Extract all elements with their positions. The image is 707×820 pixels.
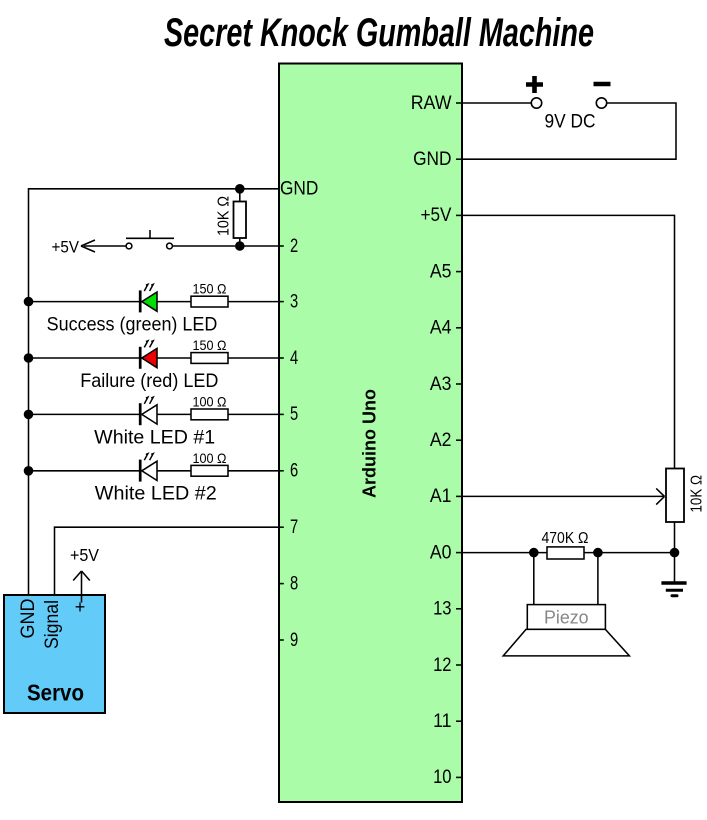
resistor R4 100 ohm	[191, 409, 279, 420]
svg-text:GND: GND	[17, 599, 39, 639]
node junction dot at potentiometer bottom	[670, 548, 680, 558]
pin GND right label	[413, 149, 462, 170]
wire pin2 row	[240, 245, 279, 247]
pin A2 label	[430, 430, 462, 451]
pin 9 label	[279, 630, 298, 651]
node junction dot bus row4	[24, 353, 34, 363]
svg-text:A0: A0	[430, 542, 452, 563]
svg-text:12: 12	[433, 655, 451, 676]
svg-text:9V DC: 9V DC	[545, 110, 596, 132]
battery minus sign	[594, 82, 611, 87]
svg-text:100 Ω: 100 Ω	[193, 450, 227, 466]
wire battery minus to GND	[462, 103, 676, 159]
wire pushbutton to +5V arrow	[84, 245, 126, 247]
svg-text:11: 11	[433, 711, 451, 732]
wire GND left bus	[29, 189, 280, 601]
svg-text:Arduino Uno: Arduino Uno	[359, 389, 380, 498]
svg-text:470K Ω: 470K Ω	[542, 530, 589, 547]
piezo cone	[503, 629, 629, 656]
svg-text:4: 4	[290, 348, 299, 369]
svg-text:10K Ω: 10K Ω	[689, 475, 706, 513]
wire pin7 to servo signal	[55, 527, 280, 600]
+5V arrow head	[81, 240, 95, 252]
battery terminal minus circle	[596, 98, 606, 108]
node junction dot on GND line	[235, 184, 245, 194]
A1 wiper arrow head	[656, 488, 664, 504]
svg-text:A5: A5	[430, 261, 452, 282]
svg-text:Failure (red) LED: Failure (red) LED	[80, 370, 218, 392]
Arduino Uno board U1	[279, 64, 462, 803]
svg-text:150 Ω: 150 Ω	[193, 281, 227, 297]
resistor R5 100 ohm	[191, 465, 279, 476]
wire A0 row right of resistor	[584, 552, 675, 554]
pin 5 label	[279, 404, 298, 425]
svg-text:GND: GND	[280, 179, 318, 200]
svg-text:A2: A2	[430, 430, 452, 451]
resistor R2 150 ohm	[191, 296, 279, 307]
node junction dot bus row6	[24, 466, 34, 476]
node junction dot bus row3	[24, 297, 34, 307]
svg-text:+5V: +5V	[70, 545, 99, 565]
pin 10 label	[433, 767, 462, 788]
wire piezo right lead	[597, 553, 599, 605]
pin RAW label	[411, 93, 462, 114]
pin 13 label	[433, 599, 462, 620]
svg-text:6: 6	[290, 461, 298, 482]
resistor R7 470K	[547, 547, 584, 559]
pin A3 label	[430, 374, 462, 395]
pin 3 label	[279, 291, 298, 312]
svg-text:9: 9	[290, 630, 298, 651]
pin A5 label	[430, 261, 462, 282]
svg-text:+5V: +5V	[52, 238, 80, 256]
svg-text:7: 7	[290, 517, 298, 538]
pushbutton S1	[126, 230, 235, 249]
svg-text:Piezo: Piezo	[544, 606, 589, 627]
node junction dot piezo left	[529, 548, 539, 558]
pin GND left label	[280, 179, 318, 200]
svg-text:White LED #1: White LED #1	[94, 426, 215, 448]
piezo SP1 body	[527, 605, 605, 630]
pin A1 label	[430, 486, 462, 507]
svg-text:A4: A4	[430, 318, 452, 339]
svg-text:White LED #2: White LED #2	[95, 483, 217, 505]
wire piezo left lead	[533, 553, 535, 605]
ground symbol	[661, 553, 686, 596]
svg-text:Servo: Servo	[27, 680, 84, 706]
LED D4 white 2	[29, 454, 192, 482]
LED D2 failure red	[29, 341, 192, 369]
node junction dot on pin2 line	[235, 241, 245, 251]
servo +5V arrow	[73, 571, 90, 603]
svg-text:A1: A1	[430, 486, 452, 507]
node junction dot piezo right	[593, 548, 603, 558]
pin 4 label	[279, 348, 299, 369]
wire A0 row	[462, 552, 547, 554]
svg-text:100 Ω: 100 Ω	[193, 393, 227, 409]
servo M1	[4, 595, 105, 713]
svg-text:+5V: +5V	[421, 205, 452, 226]
pin 11 label	[433, 711, 462, 732]
svg-text:Success (green) LED: Success (green) LED	[47, 314, 218, 336]
battery plus sign	[526, 76, 543, 93]
svg-text:10: 10	[433, 767, 451, 788]
wire +5V to potentiometer	[462, 215, 675, 468]
battery terminal plus circle	[531, 98, 541, 108]
svg-text:13: 13	[433, 599, 451, 620]
resistor R3 150 ohm	[191, 353, 279, 364]
svg-text:Secret Knock Gumball Machine: Secret Knock Gumball Machine	[164, 11, 594, 55]
pin 7 label	[279, 517, 298, 538]
pin A4 label	[430, 318, 462, 339]
wire A1 to potentiometer wiper	[462, 495, 664, 497]
potentiometer R6 10K	[666, 469, 684, 523]
svg-text:A3: A3	[430, 374, 452, 395]
LED D1 success green	[29, 284, 192, 312]
svg-text:+: +	[75, 597, 86, 617]
pin 12 label	[433, 655, 462, 676]
svg-text:2: 2	[290, 236, 298, 257]
pin 8 label	[279, 573, 298, 594]
pin 2 label	[279, 236, 298, 257]
svg-text:3: 3	[290, 291, 298, 312]
pin +5V label	[421, 205, 463, 226]
svg-text:RAW: RAW	[411, 93, 452, 114]
svg-text:10K Ω: 10K Ω	[215, 196, 232, 236]
wire RAW to battery plus	[462, 102, 531, 104]
svg-text:Signal: Signal	[41, 600, 63, 649]
svg-text:150 Ω: 150 Ω	[193, 337, 227, 353]
svg-text:5: 5	[290, 404, 298, 425]
pin A0 label	[430, 542, 462, 563]
svg-text:GND: GND	[413, 149, 451, 170]
svg-text:8: 8	[290, 573, 298, 594]
pin 6 label	[279, 461, 298, 482]
wire potentiometer to A0 node	[674, 522, 676, 553]
LED D3 white 1	[29, 397, 192, 425]
node junction dot bus row5	[24, 410, 34, 420]
resistor R1 10K pullup	[234, 189, 247, 246]
